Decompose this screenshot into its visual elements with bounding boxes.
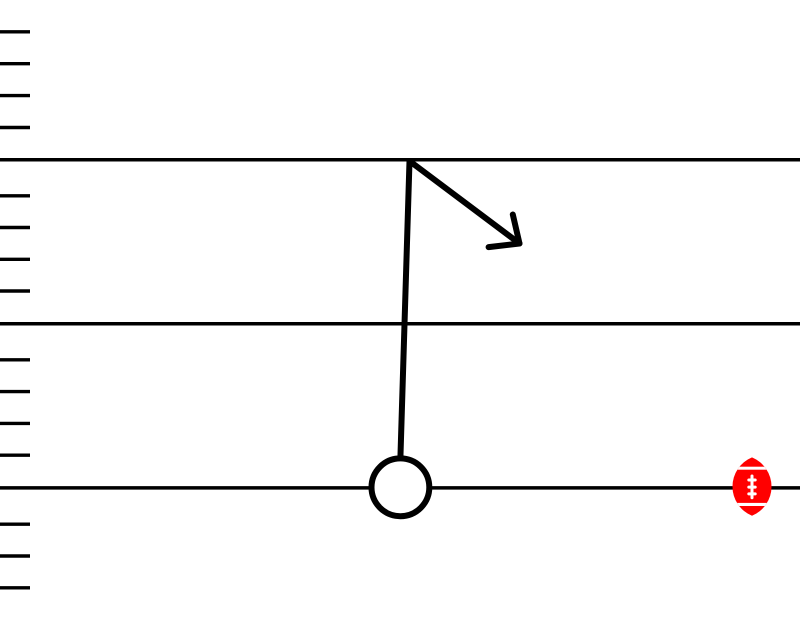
hash mark 14 [0, 554, 30, 557]
arrowhead barbs [489, 215, 520, 248]
hash mark 10 [0, 390, 30, 393]
hash mark 6 [0, 226, 30, 229]
hash mark 5 [0, 194, 30, 197]
hash mark 11 [0, 422, 30, 425]
hash mark 2 [0, 62, 30, 65]
hash mark 9 [0, 358, 30, 361]
hash mark 15 [0, 586, 30, 589]
football body [732, 457, 771, 515]
football laces [749, 476, 755, 498]
hash mark 7 [0, 258, 30, 261]
hash mark 3 [0, 94, 30, 97]
football white stripes [728, 467, 776, 506]
yard line 3 [0, 486, 800, 490]
yard line 1 [0, 158, 800, 162]
hash mark 13 [0, 523, 30, 526]
yard line 2 [0, 322, 800, 326]
hash mark 12 [0, 454, 30, 457]
player circle O [372, 458, 430, 516]
route shaft: up from circle then diagonal down-right [400, 161, 519, 458]
hash mark 4 [0, 126, 30, 129]
hash mark 1 [0, 30, 30, 33]
hash mark 8 [0, 289, 30, 292]
